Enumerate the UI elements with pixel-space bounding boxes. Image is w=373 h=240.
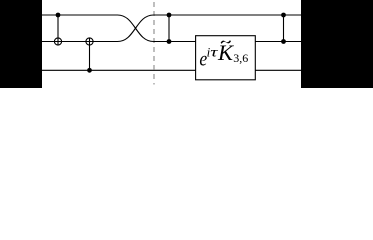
CZ2 vertical wire: [283, 15, 285, 42]
CZ1 vertical wire: [168, 15, 170, 42]
CZ2 control dot (on q1): [281, 39, 286, 44]
CZ1 control dot (on q0): [167, 13, 172, 18]
CNOT2 vertical control wire: [89, 38, 91, 70]
wire q1 (middle wire, segment to gate box): [154, 41, 196, 43]
SWAP crossing: q0 curve down: [118, 15, 154, 42]
wire q1 (middle wire, left segment): [42, 41, 118, 43]
wire q2 (bottom wire, right segment): [255, 69, 301, 71]
wire q0 (top wire, left segment): [42, 14, 118, 16]
wire q1 (middle wire, right segment): [255, 41, 301, 43]
gate label e^{iτ K̃_3,6}: [199, 40, 248, 71]
barrier (dashed slice line): [153, 2, 155, 85]
wire q0 (top wire, right segment): [154, 14, 302, 16]
CNOT2 control dot (on q2): [87, 68, 92, 73]
black mask right: [301, 0, 373, 88]
SWAP crossing: q1 curve up: [118, 15, 154, 42]
CZ2 control dot (on q0): [281, 13, 286, 18]
CNOT1 target ⊕ (on q1): [54, 38, 61, 45]
CNOT1 control dot (on q0): [56, 13, 61, 18]
wire q2 (bottom wire, left segment): [42, 69, 196, 71]
svg-text:3,6: 3,6: [233, 51, 248, 65]
gate box U = exp(i tau K~_{3,6}): [196, 36, 256, 80]
svg-text:K: K: [217, 40, 234, 65]
CZ1 control dot (on q1): [167, 39, 172, 44]
CNOT1 vertical control wire: [57, 15, 59, 45]
black mask left: [0, 0, 42, 88]
CNOT2 target ⊕ (on q1): [86, 38, 93, 45]
